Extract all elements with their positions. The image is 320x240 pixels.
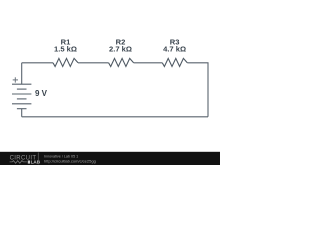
watermark bar <box>0 152 220 165</box>
battery long plate 5 <box>12 103 31 105</box>
resistor R1 zigzag <box>53 58 78 66</box>
svg-text:LAB: LAB <box>31 160 41 165</box>
battery V1 plates <box>12 84 31 109</box>
svg-text:http://circuitlab.com/c/ce25gg: http://circuitlab.com/c/ce25gg <box>44 158 96 163</box>
resistor R2 zigzag <box>109 58 134 66</box>
wire battery bottom stub <box>21 109 23 117</box>
plus sign of battery <box>13 77 18 82</box>
wire bottom from right corner to battery <box>22 116 208 118</box>
battery short plate 4 <box>17 98 27 100</box>
svg-text:4.7 kΩ: 4.7 kΩ <box>163 44 186 53</box>
battery short plate 6 <box>17 108 27 110</box>
wire top-left from battery + terminal to R1 <box>22 62 53 64</box>
divider <box>37 153 40 165</box>
battery long plate 3 <box>12 93 31 95</box>
svg-text:2.7 kΩ: 2.7 kΩ <box>109 44 132 53</box>
resistor R3 zigzag <box>162 58 187 66</box>
battery short plate 2 <box>17 88 27 90</box>
svg-text:1.5 kΩ: 1.5 kΩ <box>54 44 77 53</box>
svg-text:9 V: 9 V <box>35 89 48 98</box>
logo zigzag <box>10 161 27 164</box>
battery long plate 1 <box>12 83 31 85</box>
wire R3 to top-right corner and down right side <box>187 63 208 117</box>
wire R1 to R2 <box>78 62 109 64</box>
wire R2 to R3 <box>134 62 163 64</box>
wire battery top stub <box>21 63 23 84</box>
logo mark square <box>28 161 30 164</box>
